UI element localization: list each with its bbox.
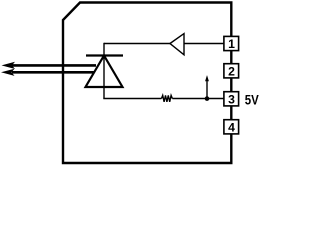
- svg-text:5V: 5V: [245, 93, 259, 108]
- svg-text:3: 3: [228, 92, 235, 106]
- svg-text:1: 1: [228, 37, 235, 51]
- svg-text:2: 2: [228, 65, 235, 79]
- svg-text:4: 4: [228, 120, 235, 134]
